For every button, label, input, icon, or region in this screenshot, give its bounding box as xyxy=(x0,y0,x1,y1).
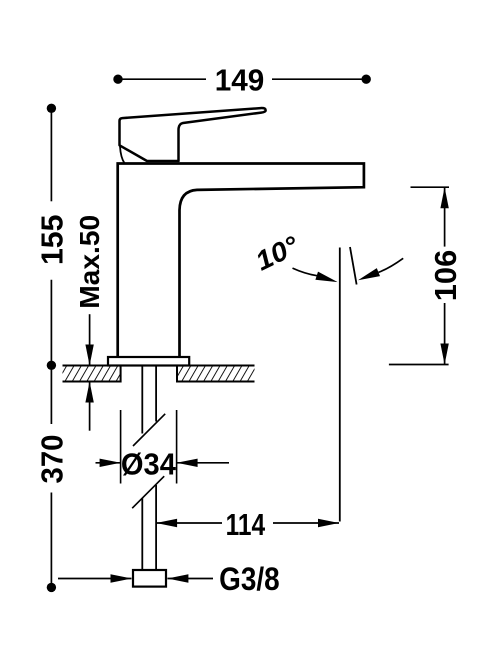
svg-text:155: 155 xyxy=(35,215,70,265)
dimension 149 line xyxy=(118,78,366,80)
pipe break upper diagonal xyxy=(133,414,165,446)
supply pipes lower segments xyxy=(142,485,156,570)
dimension 106 bottom tick xyxy=(389,364,449,366)
diameter 34 right arrow xyxy=(177,459,229,467)
Max.50 upper arrow xyxy=(85,314,93,365)
G3/8 left arrow xyxy=(58,574,132,582)
svg-text:106: 106 xyxy=(428,250,463,302)
10 degrees left arc with arrow xyxy=(293,268,338,282)
tilted stream line 10deg xyxy=(350,247,357,285)
countertop left section xyxy=(63,366,121,382)
dimension 106 top tick xyxy=(411,186,450,188)
handle dome arc xyxy=(120,147,125,164)
dimension 155/370 vertical line xyxy=(50,108,52,587)
diameter 34 extension lines xyxy=(121,410,177,484)
dimension 149 end dots xyxy=(113,75,122,84)
svg-text:Ø34: Ø34 xyxy=(121,446,177,481)
supply pipes upper segments xyxy=(142,366,156,434)
faucet body and spout outline xyxy=(118,164,364,358)
G3/8 right arrow xyxy=(167,574,213,582)
G3/8 fitting xyxy=(133,570,166,587)
svg-text:370: 370 xyxy=(35,435,70,484)
pipe break lower diagonal xyxy=(132,476,164,508)
diameter 34 left arrow xyxy=(96,459,121,467)
svg-text:149: 149 xyxy=(215,63,265,98)
dimension end dots xyxy=(47,104,56,113)
svg-text:Max.50: Max.50 xyxy=(74,215,105,309)
Max.50 lower arrow xyxy=(85,382,93,431)
svg-text:G3/8: G3/8 xyxy=(219,561,280,597)
countertop right section xyxy=(177,366,255,382)
dimension 106 line with arrows xyxy=(440,187,448,364)
dimension 114 line with arrows xyxy=(156,519,339,527)
base flange xyxy=(108,357,189,366)
handle lever xyxy=(120,108,266,161)
water stream vertical line xyxy=(339,248,341,522)
svg-text:114: 114 xyxy=(226,507,266,542)
10 degrees right arc with arrow xyxy=(358,258,403,280)
